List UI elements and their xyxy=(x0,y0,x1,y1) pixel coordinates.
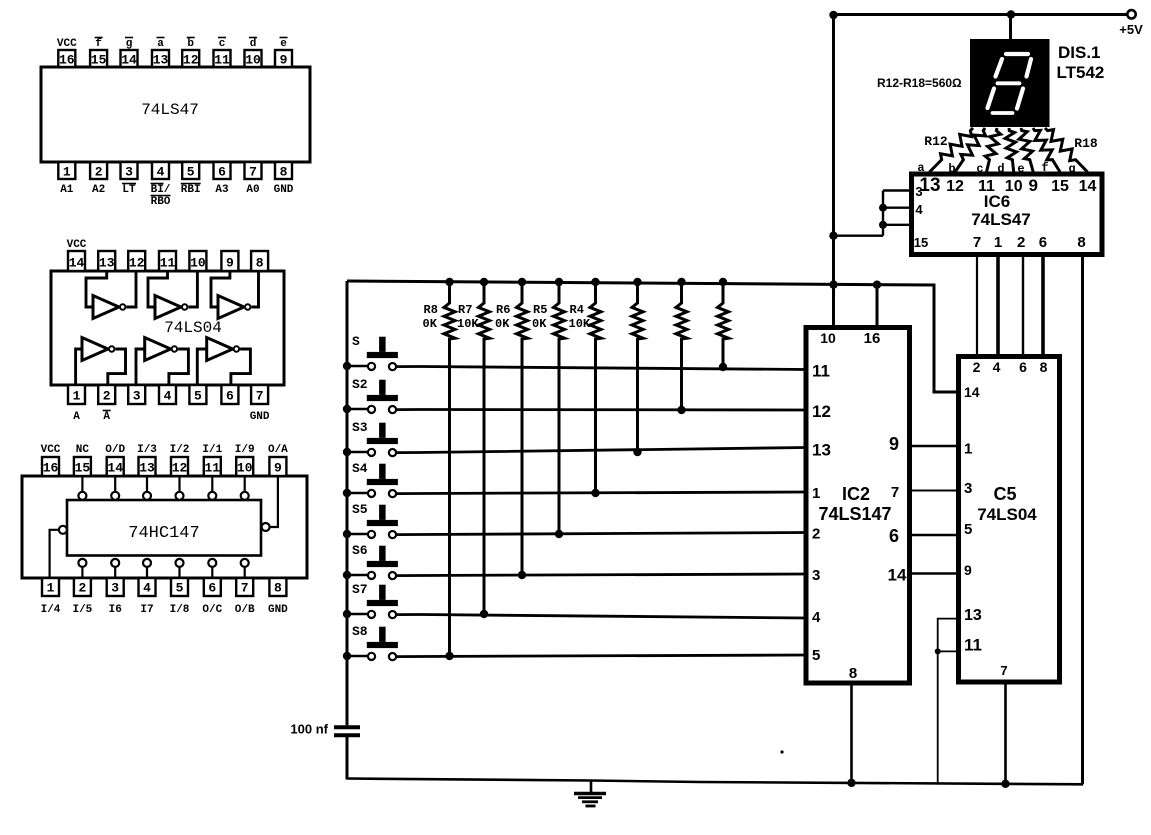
svg-text:9: 9 xyxy=(1028,176,1037,195)
svg-text:7: 7 xyxy=(249,165,257,180)
svg-text:10: 10 xyxy=(1005,178,1023,195)
svg-text:DIS.1: DIS.1 xyxy=(1058,43,1101,62)
svg-text:R4: R4 xyxy=(570,303,584,317)
svg-text:g: g xyxy=(1068,162,1075,176)
svg-text:0K: 0K xyxy=(495,317,510,331)
svg-text:15: 15 xyxy=(914,235,928,250)
svg-text:2: 2 xyxy=(973,359,981,375)
svg-text:O/D: O/D xyxy=(105,444,125,456)
svg-text:0K: 0K xyxy=(532,317,547,331)
svg-text:14: 14 xyxy=(888,566,907,585)
svg-text:VCC: VCC xyxy=(67,239,87,251)
svg-text:R5: R5 xyxy=(533,303,547,317)
svg-text:VCC: VCC xyxy=(57,38,77,50)
svg-text:13: 13 xyxy=(153,53,169,68)
svg-text:14: 14 xyxy=(964,384,980,400)
svg-text:6: 6 xyxy=(218,165,226,180)
svg-text:1: 1 xyxy=(47,581,55,596)
svg-text:d: d xyxy=(250,38,257,50)
svg-text:12: 12 xyxy=(183,53,199,68)
svg-text:e: e xyxy=(1017,162,1024,176)
svg-text:15: 15 xyxy=(75,461,91,476)
svg-text:I/2: I/2 xyxy=(170,444,190,456)
svg-text:f: f xyxy=(95,38,102,50)
svg-text:A0: A0 xyxy=(246,184,259,196)
svg-text:b: b xyxy=(187,38,194,50)
svg-text:8: 8 xyxy=(849,665,857,682)
svg-text:13: 13 xyxy=(139,461,155,476)
svg-text:6: 6 xyxy=(208,581,216,596)
svg-text:NC: NC xyxy=(76,444,90,456)
svg-text:5: 5 xyxy=(964,521,972,538)
svg-text:16: 16 xyxy=(43,461,59,476)
svg-text:R8: R8 xyxy=(424,303,438,317)
svg-text:74LS47: 74LS47 xyxy=(971,210,1031,229)
svg-text:I/5: I/5 xyxy=(72,604,92,616)
svg-text:VCC: VCC xyxy=(41,444,61,456)
svg-text:5: 5 xyxy=(812,647,820,664)
svg-text:12: 12 xyxy=(172,461,188,476)
svg-text:9: 9 xyxy=(280,53,288,68)
svg-text:A3: A3 xyxy=(215,184,229,196)
svg-text:1: 1 xyxy=(73,389,81,404)
svg-text:2: 2 xyxy=(103,389,111,404)
svg-text:c: c xyxy=(219,38,226,50)
svg-text:11: 11 xyxy=(978,178,995,195)
svg-text:1: 1 xyxy=(994,234,1002,251)
svg-text:A: A xyxy=(103,411,110,423)
svg-text:A: A xyxy=(73,411,80,423)
svg-text:11: 11 xyxy=(964,636,982,655)
svg-text:11: 11 xyxy=(812,362,830,381)
svg-text:14: 14 xyxy=(121,53,137,68)
svg-text:S6: S6 xyxy=(352,543,368,558)
svg-text:2: 2 xyxy=(95,165,103,180)
svg-text:0K: 0K xyxy=(423,317,438,331)
svg-text:11: 11 xyxy=(214,53,230,68)
svg-text:11: 11 xyxy=(160,256,176,271)
svg-text:4: 4 xyxy=(164,389,172,404)
svg-text:S5: S5 xyxy=(352,502,368,517)
svg-text:14: 14 xyxy=(69,256,85,271)
svg-text:S3: S3 xyxy=(352,420,368,435)
svg-text:10K: 10K xyxy=(569,317,591,331)
svg-text:R12: R12 xyxy=(924,134,948,149)
svg-text:7: 7 xyxy=(973,234,981,251)
svg-text:4: 4 xyxy=(143,581,151,596)
svg-text:5: 5 xyxy=(176,581,184,596)
svg-text:6: 6 xyxy=(889,526,899,546)
svg-text:R18: R18 xyxy=(1074,136,1098,151)
svg-text:A2: A2 xyxy=(92,184,105,196)
svg-text:10: 10 xyxy=(245,53,261,68)
svg-text:RBI: RBI xyxy=(181,184,201,196)
svg-text:9: 9 xyxy=(964,562,972,578)
svg-text:3: 3 xyxy=(915,184,922,199)
svg-text:I/3: I/3 xyxy=(137,444,157,456)
svg-text:R7: R7 xyxy=(458,303,472,317)
svg-text:3: 3 xyxy=(812,567,820,584)
svg-text:7: 7 xyxy=(891,484,899,501)
svg-text:S2: S2 xyxy=(352,377,368,392)
svg-text:A1: A1 xyxy=(60,184,74,196)
svg-text:O/A: O/A xyxy=(268,444,288,456)
svg-text:3: 3 xyxy=(111,581,119,596)
svg-text:10: 10 xyxy=(190,256,206,271)
svg-text:6: 6 xyxy=(1019,359,1027,375)
svg-text:12: 12 xyxy=(946,178,964,195)
svg-text:GND: GND xyxy=(268,604,288,616)
svg-text:4: 4 xyxy=(993,359,1001,375)
svg-text:14: 14 xyxy=(1079,178,1097,195)
svg-text:15: 15 xyxy=(1051,178,1069,195)
svg-text:O/B: O/B xyxy=(235,604,255,616)
svg-text:1: 1 xyxy=(964,441,972,458)
svg-text:9: 9 xyxy=(226,256,234,271)
svg-text:I/8: I/8 xyxy=(170,604,190,616)
svg-text:74LS04: 74LS04 xyxy=(977,505,1037,524)
svg-text:74LS04: 74LS04 xyxy=(164,319,222,337)
svg-text:12: 12 xyxy=(129,256,145,271)
svg-text:4: 4 xyxy=(812,609,821,626)
svg-text:f: f xyxy=(1041,161,1048,175)
svg-text:7: 7 xyxy=(241,581,249,596)
svg-text:e: e xyxy=(280,38,287,50)
svg-text:O/C: O/C xyxy=(202,604,222,616)
svg-text:3: 3 xyxy=(964,480,972,497)
svg-text:6: 6 xyxy=(1039,234,1047,251)
svg-text:2: 2 xyxy=(78,581,86,596)
svg-text:8: 8 xyxy=(274,581,282,596)
svg-text:BI/: BI/ xyxy=(151,184,171,196)
svg-text:3: 3 xyxy=(125,165,133,180)
svg-text:74LS47: 74LS47 xyxy=(141,101,199,119)
svg-text:10: 10 xyxy=(237,461,253,476)
svg-text:16: 16 xyxy=(59,53,75,68)
svg-text:S4: S4 xyxy=(352,461,368,476)
svg-text:8: 8 xyxy=(1077,234,1085,251)
svg-text:13: 13 xyxy=(812,441,831,460)
svg-text:LT: LT xyxy=(122,184,136,196)
svg-text:9: 9 xyxy=(274,461,282,476)
svg-text:c: c xyxy=(976,162,983,176)
svg-text:1: 1 xyxy=(812,485,820,502)
svg-text:11: 11 xyxy=(204,461,220,476)
svg-text:9: 9 xyxy=(889,434,899,454)
svg-text:5: 5 xyxy=(187,165,195,180)
svg-text:12: 12 xyxy=(812,402,831,421)
svg-text:7: 7 xyxy=(256,389,264,404)
svg-text:S7: S7 xyxy=(352,582,368,597)
svg-text:2: 2 xyxy=(1017,234,1025,251)
svg-text:5: 5 xyxy=(194,389,202,404)
svg-text:LT542: LT542 xyxy=(1057,63,1105,82)
svg-text:3: 3 xyxy=(133,389,141,404)
svg-text:8: 8 xyxy=(1040,359,1048,375)
svg-text:R6: R6 xyxy=(496,303,510,317)
svg-text:8: 8 xyxy=(256,256,264,271)
svg-text:7: 7 xyxy=(1000,663,1007,678)
svg-text:13: 13 xyxy=(964,607,982,624)
svg-text:g: g xyxy=(126,38,133,50)
svg-text:13: 13 xyxy=(99,256,115,271)
svg-text:74HC147: 74HC147 xyxy=(128,524,199,543)
svg-text:16: 16 xyxy=(864,330,881,347)
svg-text:10: 10 xyxy=(820,330,836,346)
svg-text:S: S xyxy=(352,334,360,349)
svg-text:10K: 10K xyxy=(457,317,479,331)
svg-text:I/1: I/1 xyxy=(202,444,222,456)
svg-text:74LS147: 74LS147 xyxy=(818,504,891,524)
svg-text:b: b xyxy=(948,162,955,176)
svg-text:8: 8 xyxy=(280,165,288,180)
svg-text:I7: I7 xyxy=(140,604,153,616)
svg-text:2: 2 xyxy=(812,526,820,543)
svg-text:RBO: RBO xyxy=(151,196,171,208)
svg-text:6: 6 xyxy=(226,389,234,404)
svg-text:14: 14 xyxy=(107,461,123,476)
svg-text:d: d xyxy=(997,162,1004,176)
svg-text:I/9: I/9 xyxy=(235,444,255,456)
svg-text:a: a xyxy=(917,161,924,175)
svg-text:4: 4 xyxy=(157,165,165,180)
svg-text:1: 1 xyxy=(63,165,71,180)
svg-text:GND: GND xyxy=(250,411,270,423)
svg-text:I6: I6 xyxy=(109,604,122,616)
svg-text:S8: S8 xyxy=(352,624,368,639)
svg-text:IC2: IC2 xyxy=(842,484,870,504)
svg-text:4: 4 xyxy=(915,202,923,217)
svg-text:C5: C5 xyxy=(993,484,1016,504)
svg-text:100 nf: 100 nf xyxy=(290,722,328,737)
svg-text:R12-R18=560Ω: R12-R18=560Ω xyxy=(877,76,962,90)
svg-text:15: 15 xyxy=(91,53,107,68)
svg-text:a: a xyxy=(157,38,164,50)
svg-text:I/4: I/4 xyxy=(41,604,61,616)
svg-text:GND: GND xyxy=(274,184,294,196)
svg-text:+5V: +5V xyxy=(1119,22,1143,37)
